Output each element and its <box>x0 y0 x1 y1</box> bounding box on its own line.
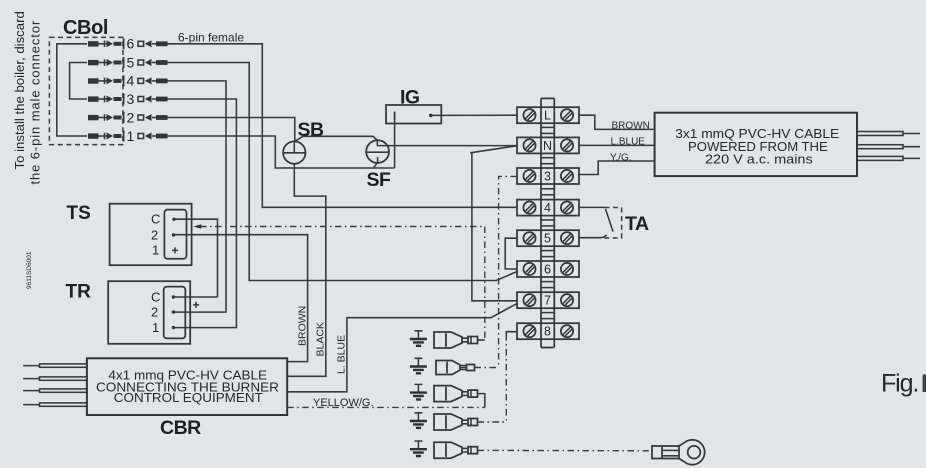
svg-text:1: 1 <box>152 320 159 335</box>
svg-text:To install the boiler, discard: To install the boiler, discard <box>12 11 27 169</box>
svg-text:Fig.: Fig. <box>881 370 918 398</box>
svg-text:1: 1 <box>127 128 135 144</box>
svg-text:220 V a.c. mains: 220 V a.c. mains <box>705 151 813 166</box>
svg-text:BLACK: BLACK <box>315 322 327 356</box>
svg-text:2: 2 <box>151 305 158 320</box>
svg-text:5: 5 <box>127 54 135 70</box>
svg-text:BROWN: BROWN <box>297 306 309 346</box>
svg-text:6-pin female: 6-pin female <box>178 31 244 45</box>
svg-text:1: 1 <box>152 243 159 258</box>
svg-text:N: N <box>543 139 552 153</box>
svg-text:CBR: CBR <box>160 417 201 439</box>
svg-text:CBol: CBol <box>63 17 108 39</box>
svg-text:CONTROL EQUIPMENT: CONTROL EQUIPMENT <box>114 390 263 405</box>
svg-text:TS: TS <box>67 203 91 224</box>
svg-text:L.BLUE: L.BLUE <box>611 137 646 148</box>
svg-text:L. BLUE: L. BLUE <box>336 335 348 374</box>
svg-text:5: 5 <box>544 232 551 246</box>
svg-text:C: C <box>151 290 160 305</box>
svg-text:TR: TR <box>66 282 92 303</box>
svg-text:3: 3 <box>127 91 135 107</box>
svg-text:4: 4 <box>544 201 551 215</box>
svg-text:6: 6 <box>544 263 551 277</box>
svg-text:4: 4 <box>127 73 135 89</box>
svg-text:6: 6 <box>127 36 135 52</box>
svg-text:TA: TA <box>625 213 649 235</box>
svg-text:2: 2 <box>127 109 135 125</box>
svg-text:8: 8 <box>544 325 551 339</box>
svg-text:L: L <box>544 109 551 123</box>
svg-text:7: 7 <box>544 294 551 308</box>
svg-text:Y./G.: Y./G. <box>610 152 632 163</box>
svg-text:2: 2 <box>151 227 158 242</box>
svg-text:3: 3 <box>544 170 551 184</box>
svg-text:YELLOW/G.: YELLOW/G. <box>313 397 374 409</box>
svg-text:9611SD6001: 9611SD6001 <box>26 251 33 289</box>
svg-text:BROWN: BROWN <box>612 121 650 132</box>
svg-text:the 6-pin male connector: the 6-pin male connector <box>28 20 43 185</box>
svg-text:SF: SF <box>367 169 392 191</box>
svg-text:C: C <box>151 212 160 227</box>
